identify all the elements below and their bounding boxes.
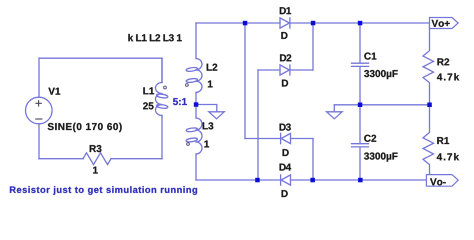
junction bottom wire at D2 vertical	[255, 178, 260, 183]
label L1 value	[143, 102, 153, 109]
label R3	[90, 145, 102, 152]
label R1	[437, 137, 449, 144]
phase dot L2	[186, 84, 189, 87]
comment text	[10, 186, 197, 195]
wire L2 to L3 center tap	[195, 92, 197, 118]
inductor L2	[196, 59, 202, 93]
resistor R1	[423, 105, 434, 180]
diode D4	[281, 175, 291, 185]
phase dot L3	[187, 143, 190, 146]
diode D3	[281, 133, 291, 143]
flag Vo+	[430, 18, 459, 29]
wire mid rail	[334, 104, 429, 106]
wire primary bottom left	[39, 158, 83, 160]
ground symbol 2	[327, 112, 343, 119]
wire D2 anode	[258, 69, 280, 71]
wire D3 to bottom rail	[312, 139, 314, 181]
label D3	[280, 124, 291, 131]
wire primary right upper	[161, 58, 163, 82]
phase dot L1	[164, 86, 167, 89]
resistor R3	[83, 153, 111, 165]
inductor L1	[156, 58, 162, 117]
wire top AC segment	[196, 22, 280, 24]
wire ground 2 stub	[333, 105, 335, 112]
label R2 value	[437, 73, 459, 80]
label Vo-	[430, 178, 446, 185]
wire L2 top lead	[195, 23, 197, 59]
diode D2	[280, 65, 290, 75]
V1 minus sign	[35, 118, 42, 120]
label D4 model	[282, 190, 288, 197]
label L3	[203, 122, 214, 129]
label D3 model	[283, 149, 289, 156]
label R1 value	[437, 153, 459, 160]
wire D2 anode vertical	[257, 70, 259, 180]
junction mid rail at R1-R2	[427, 103, 432, 108]
flag Vo-	[426, 175, 458, 187]
label D2 model	[282, 80, 288, 87]
junction mid rail at C1-C2	[358, 103, 363, 108]
label L2	[207, 64, 218, 71]
wire primary left upper	[38, 58, 40, 97]
diode D1	[280, 18, 290, 28]
label SINE	[48, 123, 122, 132]
label C2 value	[364, 153, 398, 162]
label D1 model	[281, 32, 287, 39]
wire primary left lower	[38, 124, 40, 159]
label C2	[364, 135, 376, 142]
ground symbol 1	[209, 112, 225, 119]
label D2	[280, 54, 291, 61]
wire center tap stub	[196, 105, 217, 112]
voltage source V1	[26, 97, 53, 124]
wire L3 bottom lead	[195, 154, 197, 180]
V1 plus sign	[35, 100, 41, 106]
capacitor C2	[352, 105, 369, 180]
label L3 value	[204, 141, 209, 148]
label R3 value	[93, 167, 98, 174]
wire primary top	[39, 57, 162, 59]
junction top wire at D2 cathode	[311, 21, 316, 26]
junction top wire at C1	[358, 21, 363, 26]
wire D3 feed vertical	[244, 23, 246, 139]
capacitor C1	[352, 23, 369, 105]
wire bottom AC segment	[196, 179, 280, 181]
junction bottom wire at C2	[358, 178, 363, 183]
wire primary right lower	[161, 116, 163, 159]
wire D2 to top rail	[312, 23, 314, 70]
label L1	[143, 87, 154, 94]
label C1	[364, 53, 376, 60]
wire D3 cathode	[245, 138, 280, 140]
resistor R2	[423, 23, 434, 105]
wire D2 cathode	[290, 69, 313, 71]
label C1 value	[364, 70, 398, 79]
wire primary bottom right	[111, 158, 162, 160]
wire D3 anode	[291, 138, 314, 140]
wire top positive rail	[290, 22, 430, 24]
label ratio 5:1	[173, 98, 187, 105]
junction top wire at D3 feed	[243, 21, 248, 26]
junction bottom wire at D3 vertical	[310, 178, 315, 183]
label Vo+	[432, 20, 450, 27]
label R2	[437, 58, 449, 65]
wire bottom negative rail	[291, 179, 427, 181]
label D4	[280, 164, 292, 171]
label D1	[280, 7, 291, 14]
label V1	[48, 88, 60, 95]
junction center tap	[194, 102, 199, 107]
label k statement	[128, 34, 181, 41]
label L2 value	[208, 81, 213, 88]
inductor L3	[196, 118, 202, 154]
